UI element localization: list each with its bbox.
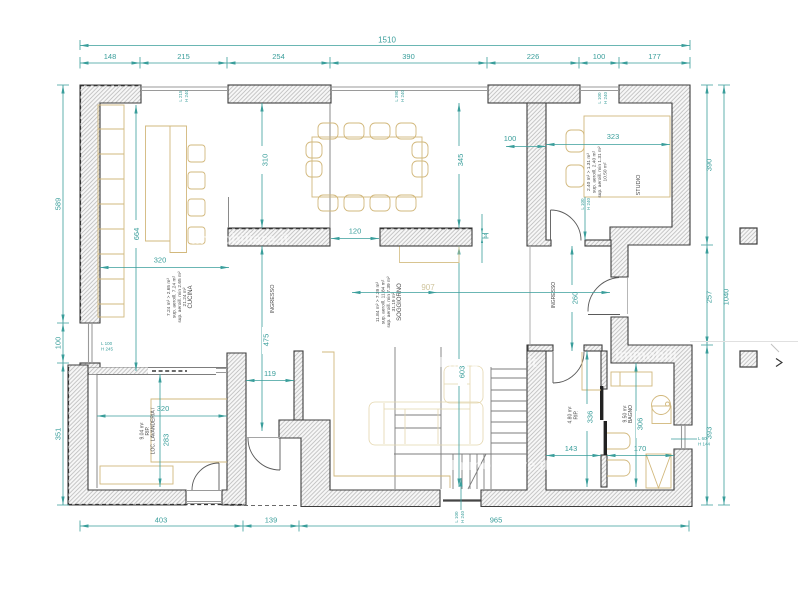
svg-text:H 245: H 245 xyxy=(101,347,114,352)
door D2 ingresso arc xyxy=(588,278,619,312)
kitchen stool 3 xyxy=(188,199,205,216)
tan guide 907 xyxy=(400,247,460,263)
wall top-3 xyxy=(488,85,580,103)
wall stair SW xyxy=(294,351,303,420)
leader south door xyxy=(460,478,462,510)
svg-text:H 240: H 240 xyxy=(586,198,591,211)
bagno toilet xyxy=(652,406,671,424)
svg-text:H 240: H 240 xyxy=(184,90,189,103)
svg-text:Immobiliare.it: Immobiliare.it xyxy=(439,354,537,371)
kitchen stool 1 xyxy=(188,145,205,162)
dim 306 line xyxy=(635,363,637,487)
dining chairs bottom xyxy=(318,195,338,211)
wall F and bagno top-right xyxy=(611,317,692,425)
svg-text:L 60: L 60 xyxy=(698,436,707,441)
studio chair 1 xyxy=(566,130,584,152)
wall lavanderia left-bottom xyxy=(68,365,186,505)
svg-text:RIP.: RIP. xyxy=(145,426,151,435)
dining chairs left xyxy=(306,142,322,158)
svg-text:LOC. LAVANDERIA /: LOC. LAVANDERIA / xyxy=(151,407,157,454)
door D3 corridor arc xyxy=(248,438,280,470)
dim chain left line xyxy=(57,85,69,505)
svg-text:119: 119 xyxy=(264,369,276,378)
dim 120 line xyxy=(331,238,379,240)
svg-text:336: 336 xyxy=(586,411,595,424)
wall B dining-south xyxy=(380,228,472,246)
svg-text:1510: 1510 xyxy=(378,36,396,45)
kitchen island xyxy=(146,126,187,253)
arrows right chains xyxy=(705,85,708,94)
leader bagno window xyxy=(671,438,697,440)
svg-text:320: 320 xyxy=(154,256,167,265)
dim 345 line xyxy=(458,103,460,228)
kitchen counter boxes xyxy=(98,105,124,317)
studio desk xyxy=(584,116,670,197)
kitchen stool 2 xyxy=(188,172,205,189)
svg-text:L 100: L 100 xyxy=(454,511,459,523)
stair void line east xyxy=(440,347,442,489)
bagno shower xyxy=(646,454,671,488)
dim 1040 line xyxy=(718,85,730,505)
svg-text:L 390: L 390 xyxy=(394,90,399,102)
dim 170 line xyxy=(607,455,674,457)
svg-text:L 100: L 100 xyxy=(580,198,585,210)
lavanderia counter xyxy=(151,399,227,462)
svg-text:589: 589 xyxy=(54,198,63,211)
svg-text:10.50 m²: 10.50 m² xyxy=(603,162,609,181)
svg-text:sup. aeroill. min 7.39 m²: sup. aeroill. min 7.39 m² xyxy=(386,276,392,328)
svg-text:L 100: L 100 xyxy=(101,341,113,346)
dim chain bottom line xyxy=(80,521,689,532)
svg-text:H 144: H 144 xyxy=(698,442,711,447)
svg-text:44: 44 xyxy=(483,233,488,239)
svg-text:257: 257 xyxy=(705,291,714,304)
svg-text:965: 965 xyxy=(490,516,503,525)
left wall dashed outer edge xyxy=(80,85,82,323)
svg-text:283: 283 xyxy=(162,434,171,447)
arrows interior dims xyxy=(260,103,263,112)
window lavanderia top-right xyxy=(216,369,227,373)
svg-text:Immobiliare.it: Immobiliare.it xyxy=(451,457,549,474)
svg-text:9.50 m²: 9.50 m² xyxy=(623,405,629,422)
wall top-1 dashed edge xyxy=(80,85,141,87)
svg-text:320: 320 xyxy=(157,404,170,413)
svg-text:SOGGIORNO: SOGGIORNO xyxy=(397,283,403,321)
stair treads upper flight xyxy=(491,369,527,443)
svg-text:100: 100 xyxy=(54,337,63,350)
svg-text:sup. aeroill. min 2.65 m²: sup. aeroill. min 2.65 m² xyxy=(177,271,183,323)
svg-text:H 240: H 240 xyxy=(603,92,608,105)
svg-text:226: 226 xyxy=(527,52,540,61)
svg-text:L 215: L 215 xyxy=(178,90,183,102)
dining chairs top xyxy=(318,123,338,139)
bagno counter top xyxy=(611,372,652,386)
door D4 lavanderia arc xyxy=(192,463,219,490)
wall rip top-left xyxy=(528,345,553,351)
svg-text:INGRESSO: INGRESSO xyxy=(551,282,557,309)
dim 119 line xyxy=(246,380,294,382)
wall top-left corner xyxy=(80,85,141,323)
dim 1510 line xyxy=(80,40,690,50)
svg-text:1040: 1040 xyxy=(722,289,731,306)
dim 310 line xyxy=(261,103,263,228)
svg-text:4.80 m²: 4.80 m² xyxy=(568,406,574,423)
svg-text:INGRESSO: INGRESSO xyxy=(270,284,276,314)
legend mark chevron xyxy=(776,359,782,367)
legend square 2 xyxy=(740,351,757,367)
wall lavanderia bottom-right xyxy=(222,353,246,505)
svg-text:177: 177 xyxy=(648,52,661,61)
svg-text:254: 254 xyxy=(272,52,285,61)
wall A kitchen-south xyxy=(228,228,330,246)
wall top-right complex xyxy=(610,85,690,277)
dim 283 line xyxy=(159,374,161,487)
svg-text:Immobili: Immobili xyxy=(615,347,677,364)
wall T with foot xyxy=(527,103,551,246)
ingresso-soggiorno boundary xyxy=(529,246,531,345)
door D2 ingresso leaf xyxy=(588,314,620,316)
porch dashed edge xyxy=(230,505,300,507)
svg-text:351: 351 xyxy=(54,428,63,441)
dim 603 line xyxy=(458,246,460,487)
white underlays for rotated dim texts xyxy=(134,146,645,454)
window left wall xyxy=(89,323,93,363)
svg-text:390: 390 xyxy=(402,52,415,61)
svg-text:148: 148 xyxy=(104,52,117,61)
svg-text:403: 403 xyxy=(155,516,168,525)
wall top-2 xyxy=(228,85,331,103)
svg-text:9.04 m²: 9.04 m² xyxy=(140,422,146,439)
lavanderia top wall band xyxy=(89,368,148,375)
svg-text:H 240: H 240 xyxy=(400,90,405,103)
svg-text:sup. aeroill. 7.24 m²: sup. aeroill. 7.24 m² xyxy=(172,276,178,319)
dim 143 line xyxy=(546,455,601,457)
dim chain top line xyxy=(80,57,690,69)
dim chain right line xyxy=(701,85,713,505)
dim 323 line xyxy=(546,144,670,146)
soggiorno low wall xyxy=(322,352,450,488)
svg-text:sup. aeroill. min 1.31 m²: sup. aeroill. min 1.31 m² xyxy=(597,146,603,198)
dim 664 line xyxy=(135,105,137,371)
legend square 1 xyxy=(740,228,757,244)
stair void line west xyxy=(394,347,396,489)
dim 100 studio line xyxy=(506,146,546,148)
dim 44 line xyxy=(482,214,489,263)
arrows bottom chain xyxy=(80,524,89,527)
svg-text:310: 310 xyxy=(261,154,270,167)
wall thin ingresso-top xyxy=(585,240,611,246)
wall B dashed edge xyxy=(380,228,472,230)
door D4 lavanderia leaf xyxy=(218,463,220,490)
door D2 reveal line xyxy=(627,278,629,314)
stair landing line xyxy=(394,453,527,455)
svg-text:CUCINA: CUCINA xyxy=(188,285,194,308)
svg-text:2.40 m² > 1.31 m²: 2.40 m² > 1.31 m² xyxy=(586,153,592,191)
wall divider rip-bagno lower xyxy=(601,455,607,487)
rip shelf xyxy=(582,352,601,390)
bagno sink 1 xyxy=(607,433,630,449)
window kitchen top xyxy=(141,87,228,91)
svg-text:7.24 m² > 2.65 m²: 7.24 m² > 2.65 m² xyxy=(166,278,172,316)
window bagno right xyxy=(682,425,686,449)
door D5 rip arc xyxy=(553,352,584,383)
sliding door rip-bagno xyxy=(600,386,603,420)
kitchen stool 4 xyxy=(188,227,205,244)
dim 320 lavanderia line xyxy=(97,415,227,417)
wall stair west, bottom-2, bagno right lower xyxy=(481,345,692,507)
dim 320 kitchen line xyxy=(100,267,229,269)
svg-text:STUDIO: STUDIO xyxy=(636,174,642,196)
svg-text:sup. aeroill. 11.84 m²: sup. aeroill. 11.84 m² xyxy=(381,279,387,324)
studio chair 2 xyxy=(566,165,584,187)
svg-text:475: 475 xyxy=(262,334,271,347)
svg-text:306: 306 xyxy=(636,418,645,431)
lavanderia top face line xyxy=(88,368,227,375)
door D1 studio leaf xyxy=(550,210,552,240)
partition line dining west xyxy=(329,103,331,228)
dim 336 line xyxy=(586,351,588,487)
svg-text:170: 170 xyxy=(634,444,647,453)
sofa seat xyxy=(369,402,483,445)
stair treads lower flight xyxy=(453,454,484,489)
svg-text:260: 260 xyxy=(571,292,580,305)
arrows top chains xyxy=(80,44,89,47)
svg-text:11.84 m² > 7.39 m²: 11.84 m² > 7.39 m² xyxy=(375,281,381,322)
stair flight west edge xyxy=(490,367,492,489)
svg-text:139: 139 xyxy=(265,516,278,525)
svg-text:100: 100 xyxy=(504,134,517,143)
wall rip top-right xyxy=(584,345,602,351)
svg-text:143: 143 xyxy=(565,444,578,453)
legend mark diagonal xyxy=(771,344,779,352)
window dining top xyxy=(331,87,488,91)
watermark xyxy=(191,231,677,474)
svg-text:907: 907 xyxy=(421,283,435,292)
lavanderia appliance xyxy=(100,466,173,484)
threshold main south door xyxy=(443,499,481,501)
lavanderia top dashed beam xyxy=(152,370,187,372)
svg-text:H 240: H 240 xyxy=(460,511,465,524)
svg-text:664: 664 xyxy=(132,228,141,241)
svg-text:sup. aeroill. 2.40 m²: sup. aeroill. 2.40 m² xyxy=(592,151,598,194)
stair winder diagonal xyxy=(468,454,486,489)
wall left stub xyxy=(80,363,100,374)
leader studio door xyxy=(584,197,586,240)
svg-text:215: 215 xyxy=(177,52,190,61)
bagno sink 2 xyxy=(607,460,630,476)
teal line soggiorno xyxy=(352,292,610,294)
dining chairs right xyxy=(412,142,428,158)
door D5 rip leaf xyxy=(552,352,554,383)
lavanderia inner face west xyxy=(96,374,98,488)
partition line kitchen east xyxy=(228,197,230,228)
door D1 studio arc xyxy=(551,210,582,241)
svg-text:L 100: L 100 xyxy=(597,92,602,104)
dim 260 line xyxy=(571,246,573,351)
svg-text:323: 323 xyxy=(607,132,620,141)
door D3 corridor leaf xyxy=(279,438,281,470)
door D3 header xyxy=(247,437,280,439)
svg-text:BAGNO: BAGNO xyxy=(628,405,634,423)
svg-text:603: 603 xyxy=(458,366,467,379)
faint fold line xyxy=(690,341,798,343)
lavanderia dashed outer edges xyxy=(68,367,243,505)
svg-text:100: 100 xyxy=(593,52,606,61)
svg-text:RIP.: RIP. xyxy=(574,410,580,419)
dining table xyxy=(312,137,422,197)
window studio top xyxy=(580,87,619,91)
wall A dashed edge xyxy=(228,228,330,230)
svg-text:Immobiliare.it: Immobiliare.it xyxy=(191,231,289,248)
svg-text:390: 390 xyxy=(705,159,714,172)
threshold lavanderia door xyxy=(186,491,222,504)
svg-text:120: 120 xyxy=(349,227,362,236)
dim 475 line xyxy=(261,246,263,431)
sofa chaise xyxy=(444,366,483,403)
arrows left chain xyxy=(61,85,64,94)
wall divider rip-bagno upper xyxy=(601,351,607,389)
svg-text:345: 345 xyxy=(456,154,465,167)
soggiorno step lines xyxy=(395,415,441,428)
